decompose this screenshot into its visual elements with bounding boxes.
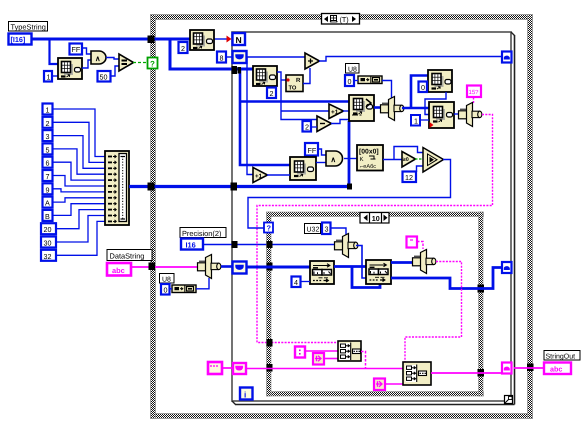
constant 2 under count node (179, 42, 188, 53)
U8 label (lower) (160, 274, 175, 284)
svg-text:abc: abc (112, 266, 125, 275)
array subset node (349, 95, 374, 121)
wire funnel5 string out down to concat6 (405, 262, 462, 363)
wire concat5 out down to junction (361, 352, 366, 369)
initialize array node (lower) (172, 285, 196, 293)
i iteration terminal (240, 388, 253, 400)
svg-text:5: 5 (46, 145, 50, 154)
inner case selector label 10 (360, 213, 389, 224)
svg-text:≥0: ≥0 (403, 157, 409, 163)
constant 0 at node5 (419, 82, 428, 93)
wire boolean to selector (133, 62, 148, 64)
build array constant 6 (43, 157, 53, 168)
wire increment out to node3 (267, 174, 290, 176)
svg-text:?: ? (150, 60, 155, 69)
TypeString [I16] array constant (9, 34, 32, 45)
case structure (outer, True case) border top (151, 15, 533, 20)
wire: table branch up to Array Subset (348, 121, 351, 187)
svg-text:B: B (45, 212, 50, 221)
build array constant 3 (43, 130, 53, 141)
to-string cast node 2 (pink) (374, 379, 385, 391)
string constant (pink, top right) (467, 86, 481, 98)
shift register right terminal 2 (up arrow) (502, 262, 512, 273)
shift register left terminal 2 (down arrow) (233, 262, 247, 274)
svg-text:StringOut: StringOut (546, 352, 576, 360)
svg-text:FF: FF (72, 45, 81, 54)
svg-text:A: A (45, 199, 50, 208)
N count terminal (233, 33, 246, 45)
tunnel on for loop left border (precision wire) (232, 241, 238, 248)
build array constant 30 (41, 237, 56, 248)
build array constant 20 (41, 223, 56, 234)
wire bytes to left shift register (init) (221, 265, 233, 268)
wire funnel4 out to node8 (356, 246, 366, 279)
inner case selector terminal (264, 223, 273, 233)
rotate/to-word node (286, 75, 303, 92)
wire: TypeString array main (thick) (32, 38, 190, 41)
wire pink const to funnel2 (473, 97, 475, 103)
to-string cast node 1 (pink) (313, 353, 324, 365)
increment node +1 (329, 104, 344, 119)
build array constant 9 (43, 183, 53, 194)
svg-text:DataString: DataString (110, 252, 145, 261)
wire funnel out / branch to index nodes (402, 76, 429, 109)
svg-text:U8: U8 (162, 276, 171, 283)
Index Array node U1 (58, 58, 82, 79)
increment node (before node3) (253, 168, 268, 183)
svg-text:50: 50 (100, 73, 108, 82)
FF constant 2 (305, 143, 318, 156)
wire node5 out down to node6 (425, 92, 446, 115)
constant 12 (403, 172, 417, 183)
constant 1 at node6 (411, 115, 420, 126)
svg-text:1: 1 (414, 117, 418, 126)
wire initialize array to string-to-bytes (196, 278, 209, 289)
wire 8 to shift register (226, 56, 233, 58)
svg-text:R: R (296, 77, 301, 84)
svg-text:FF: FF (308, 146, 317, 155)
svg-text:TO: TO (289, 85, 297, 92)
index array node 3 (lower left in loop) (290, 157, 316, 180)
constant 8 at shift register (217, 52, 226, 63)
for loop resize corner glyph (505, 396, 513, 404)
svg-text:TypeString: TypeString (11, 23, 46, 32)
wire shift register 2 into inner case (thick) (246, 266, 310, 269)
DataString string control abc (107, 263, 131, 276)
svg-text:I16: I16 (186, 240, 196, 249)
junction dot on table wire (347, 184, 352, 190)
wire Precision into inner case (203, 244, 334, 246)
StringOut label (544, 351, 580, 361)
wire cast2 to concat6 (385, 383, 403, 385)
svg-text:N: N (236, 35, 242, 45)
wire: array branch down inside loop (240, 69, 290, 165)
wire 4 to node7 (301, 281, 311, 283)
svg-text:(T): (T) (340, 15, 349, 24)
constant FF (70, 44, 83, 55)
wire DataString to string-to-bytes (131, 266, 197, 268)
svg-text:0: 0 (348, 77, 352, 86)
Precision I16 constant (181, 239, 203, 250)
wire add out to right shift register (319, 57, 502, 62)
wire 0 to initialize node (354, 80, 358, 82)
wire rotate out to add (303, 68, 310, 84)
U8 constant 0 (lower) (161, 284, 170, 295)
wire node8 out to funnel5 (391, 261, 412, 264)
svg-text:0: 0 (421, 83, 425, 92)
inner case border bottom (267, 392, 484, 397)
shift register left terminal 1 (down arrow) (233, 51, 247, 63)
wire init const to shift register 3 (222, 367, 233, 369)
wire 0 to initialize array (170, 288, 173, 290)
U8 label (upper) (346, 64, 360, 74)
wire: array branch to Array Subset (240, 100, 349, 103)
build array constant 5 (43, 143, 53, 154)
svg-text:8: 8 (220, 53, 224, 62)
build array constant A (43, 197, 53, 208)
wire boolean to select (415, 158, 423, 160)
wire 2 to subtract (311, 126, 317, 128)
string to byte array node (DataString) (198, 255, 221, 279)
StringOut indicator abc (544, 363, 571, 375)
svg-text:1: 1 (47, 73, 51, 82)
wire shift register 3 across to concat6 (246, 368, 403, 370)
constant 50 (98, 71, 111, 82)
svg-text:2: 2 (181, 44, 185, 53)
build array constant 1 (43, 104, 53, 115)
svg-text:20: 20 (44, 225, 52, 234)
index array node 2 (in loop) (253, 66, 277, 86)
wire node7 out to node8 with low branch (334, 267, 380, 288)
pink constant above funnel5 (407, 237, 418, 248)
wire shift register 1 out to add (246, 56, 305, 58)
svg-text:3: 3 (325, 225, 329, 234)
svg-text:?: ? (267, 224, 272, 233)
AND gate 2 (326, 151, 343, 166)
string constant colon (295, 347, 305, 358)
wires from constants to build array (53, 109, 106, 255)
svg-text:10: 10 (372, 214, 380, 223)
build array constant 7 (43, 170, 53, 181)
svg-text:Precision(2): Precision(2) (182, 229, 221, 238)
wire 50 to equals (111, 66, 120, 76)
svg-text:K: K (360, 156, 364, 163)
wire: branch down into loop (170, 40, 253, 69)
TypeString label (9, 22, 48, 32)
svg-text:⌐еАбс: ⌐еАбс (360, 163, 376, 170)
index array node 5 (with 0) (428, 70, 452, 92)
U8 constant 0 (upper) (345, 75, 354, 86)
concatenate strings node 5 (338, 341, 361, 361)
svg-text:U8: U8 (348, 66, 357, 73)
svg-text:[I16]: [I16] (11, 35, 26, 44)
svg-text:0: 0 (164, 286, 168, 295)
svg-text:abc: abc (550, 365, 562, 374)
wire pink const to funnel5 (417, 242, 423, 250)
black tunnel outer case right border (StringOut) (527, 364, 534, 372)
string to byte funnel 4 (335, 234, 358, 258)
replace array node 7 (310, 261, 334, 284)
svg-text:i: i (244, 390, 246, 399)
wire funnel2 string out (pink, long path to inner case) (257, 115, 493, 343)
wire: branch to Index Array 1 (50, 40, 59, 64)
constant 3 (U32) (322, 223, 331, 235)
svg-text:12: 12 (405, 173, 413, 182)
inner case border right (479, 212, 484, 396)
svg-text:2: 2 (46, 119, 50, 128)
black tunnels on outer case left border (148, 36, 155, 44)
svg-text:[00x0]: [00x0] (359, 149, 379, 156)
replace array node 8 (366, 260, 391, 284)
svg-text:15?: 15? (469, 89, 480, 96)
constant 2 at subtract (303, 121, 312, 132)
wire FF to AND (82, 48, 91, 54)
wire subtract out to array subset (331, 120, 349, 124)
tunnels on inner case border (267, 241, 273, 248)
shift register right terminal 1 (up arrow) (502, 52, 512, 63)
inner case border top (267, 212, 484, 217)
svg-text:U32: U32 (307, 227, 320, 234)
build array constant B (43, 210, 53, 221)
wire node6 out to funnel2 (454, 113, 458, 115)
byte array to string funnel (mid) (381, 97, 404, 121)
for loop frame (232, 32, 515, 405)
svg-text:1: 1 (46, 106, 50, 115)
constant 4 (292, 277, 301, 288)
wire initialize to byte-to-string funnel (382, 81, 392, 99)
wire Index Array out to AND (82, 60, 91, 68)
svg-text:6: 6 (46, 159, 50, 168)
index array node (count, top) (190, 30, 214, 50)
svg-text:2: 2 (270, 89, 274, 98)
wire AND2 to hex node (344, 158, 358, 160)
wire to StringOut (514, 367, 545, 369)
wire cast1 to concat5 (324, 358, 338, 360)
byte array to string funnel 5 (413, 250, 436, 274)
wire node3 out to AND2 (316, 162, 326, 164)
wire colon to concat5 (305, 350, 338, 352)
U32 label (305, 224, 321, 234)
greater or equal 0 node (402, 152, 416, 168)
tunnel on for loop left border (table wire) (231, 183, 238, 191)
build array constant 32 (41, 250, 56, 261)
svg-text:3: 3 (46, 132, 50, 141)
wire array subset to funnel (374, 106, 382, 109)
index array node 6 (with 1) (429, 102, 454, 128)
svg-text:7: 7 (46, 172, 50, 181)
pink empty string init constant (208, 362, 222, 374)
build array constant 2 (43, 117, 53, 128)
svg-text:∧: ∧ (95, 54, 101, 63)
svg-text:+1: +1 (255, 173, 263, 180)
AND gate A1 (91, 51, 106, 64)
case selector label "true (T)" (322, 14, 360, 25)
case selector terminal ? (148, 58, 158, 69)
svg-text:+1: +1 (331, 109, 339, 116)
byte array to string funnel 2 (459, 103, 482, 127)
inner case border left (267, 212, 272, 396)
wire select out to inner case selector (248, 160, 451, 229)
wire FF2 to AND2 (318, 149, 326, 155)
Precision label (180, 228, 226, 238)
equals node (119, 54, 134, 71)
wire node2 out branches (277, 72, 329, 120)
wire node8 lower out to shift register right 2 (391, 268, 503, 289)
red coercion arrow into N (214, 36, 232, 43)
build array node (105, 151, 129, 225)
svg-text:30: 30 (44, 239, 52, 248)
concatenate strings node 6 (403, 362, 431, 385)
wire: built table array (thick) (129, 185, 349, 188)
wire 1 to Index Array (52, 75, 58, 77)
initialize array node (upper) (358, 76, 382, 84)
wire 12 to select (417, 166, 424, 172)
subtract node (317, 116, 332, 132)
shift register left terminal 3 (pink down arrow) (233, 363, 246, 374)
wire AND out to equals (106, 58, 119, 60)
tunnel on for loop left border (array wire) (232, 66, 238, 74)
wire shift register branch down (247, 57, 253, 175)
wire 1 to node6 (420, 119, 430, 121)
svg-text:32: 32 (44, 252, 52, 261)
shift register right terminal 3 (pink up arrow) (502, 363, 512, 374)
svg-text:2: 2 (305, 123, 309, 132)
wire +1 to array subset (343, 110, 349, 112)
svg-text:4: 4 (294, 278, 298, 287)
svg-text:∧: ∧ (331, 155, 337, 164)
add node (305, 53, 320, 69)
wire hex out with branch to select (383, 147, 423, 160)
case structure (outer) border left (151, 15, 156, 419)
select node (423, 148, 444, 173)
case structure (outer) border right (528, 15, 533, 419)
constant 2 under index node 2 (267, 88, 276, 99)
wire 3 to funnel4 (331, 228, 347, 236)
wire concat6 out to shift register right 3 (431, 372, 502, 374)
DataString label (107, 250, 152, 261)
svg-text:9: 9 (46, 185, 50, 194)
case structure (outer) border bottom (151, 414, 533, 419)
number to hex string node (357, 145, 383, 171)
constant 1 (44, 71, 52, 82)
